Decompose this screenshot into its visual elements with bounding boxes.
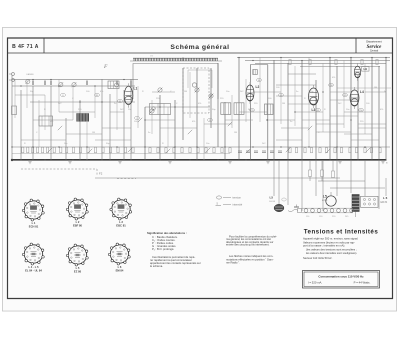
resistor	[66, 147, 68, 153]
svg-text:me Radio ”.: me Radio ”.	[226, 261, 240, 265]
svg-text:Signification des abréviations: Signification des abréviations :	[147, 231, 187, 235]
svg-text:EZ80: EZ80	[322, 200, 328, 202]
svg-text:F2: F2	[99, 172, 103, 176]
bus left junction	[11, 159, 13, 161]
resistor	[181, 148, 183, 153]
capacitor	[278, 151, 282, 153]
AVC horizontal right	[337, 87, 391, 89]
svg-text:L3: L3	[312, 108, 316, 112]
cadre winding hatch	[133, 58, 218, 61]
resistor	[376, 60, 378, 65]
resistor	[289, 60, 291, 65]
resistor	[310, 148, 312, 153]
ground	[228, 160, 232, 164]
coil unit with trimmer	[108, 81, 119, 89]
svg-text:1M: 1M	[374, 87, 377, 89]
svg-text:Département: Département	[366, 39, 382, 43]
resistor	[197, 148, 199, 153]
ground	[118, 160, 122, 164]
svg-text:L 6: L 6	[118, 265, 122, 269]
resistor	[364, 148, 366, 153]
resistor	[321, 170, 324, 177]
resistor	[335, 60, 337, 65]
svg-text:Tensions et Intensités: Tensions et Intensités	[304, 229, 379, 236]
trimmer capacitor	[209, 94, 214, 99]
tuner block	[150, 104, 171, 115]
dash linkage line	[21, 168, 97, 170]
tube L2 EBF80	[246, 82, 259, 104]
cadre loop antenna	[130, 60, 222, 62]
ground	[28, 160, 32, 164]
trimmer capacitor	[58, 82, 63, 87]
trimmer capacitor	[150, 109, 155, 114]
trimmer capacitor	[25, 79, 30, 84]
inter-rail resistors	[33, 81, 131, 86]
svg-text:Schéma général: Schéma général	[170, 44, 229, 51]
svg-text:les valeurs des intensités son: les valeurs des intensités sont souligné…	[306, 251, 357, 255]
svg-text:L 3: L 3	[119, 220, 123, 224]
capacitor	[270, 151, 274, 153]
resistor	[319, 148, 321, 153]
svg-text:P₁ : B.O. prolongé.: P₁ : B.O. prolongé.	[152, 247, 175, 251]
fuse box F	[253, 70, 257, 75]
svg-text:L5: L5	[323, 195, 327, 199]
resistor	[332, 171, 335, 178]
chassis ground bus	[12, 159, 386, 161]
svg-text:B 4F 71 A: B 4F 71 A	[12, 44, 39, 50]
svg-text:ECH 81: ECH 81	[29, 225, 39, 229]
trimmer capacitor	[72, 82, 77, 87]
resistor	[60, 147, 62, 153]
resistor	[37, 147, 39, 153]
ground	[338, 160, 342, 164]
legend tension/intensite	[216, 196, 221, 199]
circled value near L5	[282, 198, 286, 201]
resistor	[53, 147, 55, 153]
svg-text:L 4 - L 5: L 4 - L 5	[28, 265, 39, 269]
svg-text:L2: L2	[256, 85, 260, 89]
resistor	[361, 60, 363, 65]
abbreviations block	[147, 231, 201, 268]
resistor	[205, 148, 207, 153]
title band	[8, 52, 393, 54]
svg-text:L9: L9	[364, 67, 368, 71]
IF transformer left	[39, 116, 53, 126]
tube L9 EM85	[354, 63, 360, 81]
svg-text:F: F	[103, 64, 108, 70]
resistor	[109, 147, 111, 153]
horizontal jumpers	[15, 92, 386, 140]
mains transformer (dark laminated)	[352, 195, 359, 218]
resistor	[334, 148, 336, 153]
tube base L2 EBF80	[66, 198, 88, 220]
verticals below bus	[274, 160, 379, 211]
svg-text:1M: 1M	[92, 132, 95, 134]
tap labels	[306, 216, 349, 218]
trimmer capacitor	[195, 88, 200, 93]
value labels	[24, 77, 387, 145]
tube L3 EBC81	[309, 85, 319, 112]
ground	[381, 160, 385, 164]
resistor	[165, 148, 167, 153]
svg-text:CV: CV	[150, 56, 154, 58]
resistor	[309, 60, 311, 65]
resistor	[149, 148, 151, 153]
IF can 2	[234, 103, 244, 115]
ground	[266, 160, 270, 164]
svg-text:le schéma.: le schéma.	[150, 264, 163, 268]
tube base L5 EZ80	[66, 244, 88, 266]
svg-text:Secteur 110 Volts 50 Hz.: Secteur 110 Volts 50 Hz.	[303, 256, 333, 260]
resistor	[289, 148, 291, 153]
svg-text:EL 84 - UL 84: EL 84 - UL 84	[25, 269, 42, 273]
ground	[68, 160, 72, 164]
rectifier tube L5	[326, 196, 336, 206]
resistor	[309, 170, 312, 177]
capacitor	[262, 151, 266, 153]
resistor	[132, 147, 134, 153]
svg-text:L1: L1	[134, 87, 138, 91]
resistor	[221, 148, 223, 153]
IF can 1	[221, 103, 231, 115]
svg-text:Appareil réglé sur 300 m. envi: Appareil réglé sur 300 m. environ, sans …	[303, 237, 359, 241]
svg-text:L4: L4	[360, 90, 364, 94]
resistor	[102, 147, 104, 153]
resistor	[325, 148, 327, 153]
svg-text:Consommation sous 110 V/50 H: Consommation sous 110 V/50 Hz	[318, 274, 364, 278]
antenna terminals	[12, 73, 15, 76]
resistor	[124, 147, 126, 153]
tube base L1 ECH81	[22, 199, 44, 221]
svg-text:CADRE: CADRE	[26, 73, 34, 76]
capacitor	[238, 151, 242, 153]
resistor	[355, 148, 357, 153]
svg-text:EZ 80: EZ 80	[74, 270, 82, 274]
IF can 3	[265, 104, 274, 115]
input filter box	[12, 106, 17, 115]
resistor	[79, 147, 81, 153]
L9 boxed label	[362, 67, 370, 72]
output transformer (dark)	[274, 204, 284, 211]
speaker stub	[294, 206, 299, 208]
svg-text:1M: 1M	[282, 103, 285, 105]
mains plug	[298, 209, 302, 213]
resistor	[157, 148, 159, 153]
left top rails	[12, 79, 138, 81]
tube L4 EL84	[350, 87, 364, 109]
resistor	[173, 148, 175, 153]
resistor	[229, 148, 231, 153]
capacitor	[254, 151, 258, 153]
resistor	[295, 148, 297, 153]
svg-text:Central: Central	[370, 49, 379, 53]
tube base L3 EBC81	[110, 198, 132, 220]
resistor	[22, 147, 24, 153]
oscillator coil (hatched dark)	[77, 114, 89, 122]
consommation box	[303, 271, 380, 289]
resistor	[189, 148, 191, 153]
ground	[168, 160, 172, 164]
tube L1 ECH81	[124, 83, 137, 107]
switch contact arrows	[48, 118, 370, 153]
tensions paragraph	[303, 237, 359, 261]
lower rails	[12, 146, 390, 148]
svg-text:L 2: L 2	[76, 220, 80, 224]
resistor	[304, 148, 306, 153]
tube base L4-L5 EL84-UL84	[22, 243, 44, 265]
resistor	[46, 147, 48, 153]
svg-text:EL 84: EL 84	[270, 201, 276, 203]
HT rail bundle top right	[237, 57, 390, 59]
resistor	[87, 147, 89, 153]
wire verticals	[15, 57, 365, 160]
tube base L6 EM84	[108, 243, 130, 265]
resistor	[213, 148, 215, 153]
svg-text:port à la masse ; intensités e: port à la masse ; intensités en mA).	[303, 244, 345, 248]
circled voltage values	[61, 78, 364, 121]
lower horizontal line	[95, 177, 340, 179]
extra right-half texture segments	[276, 92, 386, 140]
svg-text:1M: 1M	[184, 91, 187, 93]
resistor	[32, 147, 34, 153]
svg-text:tension: tension	[233, 196, 242, 200]
svg-text:I = 520 mA.: I = 520 mA.	[308, 281, 323, 285]
border frame	[8, 38, 393, 299]
svg-text:1M: 1M	[234, 132, 237, 134]
resistor	[370, 148, 372, 153]
resistor	[117, 147, 119, 153]
middle paragraph block	[226, 235, 277, 265]
tuning gang dashed box	[183, 68, 209, 113]
svg-text:entrée des circuits qu’ils int: entrée des circuits qu’ils intéressent.	[226, 242, 270, 246]
resistor	[379, 148, 381, 153]
resistor	[72, 147, 74, 153]
svg-text:EBC 81: EBC 81	[116, 224, 126, 228]
resistor	[349, 148, 351, 153]
voltage selector box	[361, 196, 379, 207]
svg-text:L 1: L 1	[32, 221, 36, 225]
switch circle chain (voltage taps)	[302, 207, 353, 209]
svg-text:L5: L5	[270, 195, 274, 199]
trimmer capacitor	[158, 88, 163, 93]
resistor	[94, 147, 96, 153]
capacitor	[246, 151, 250, 153]
svg-text:EM 84: EM 84	[381, 202, 388, 204]
loop top connector	[250, 64, 267, 66]
svg-text:L 5: L 5	[76, 266, 80, 270]
svg-text:EM 84: EM 84	[116, 269, 124, 273]
svg-text:EBF 80: EBF 80	[73, 224, 83, 228]
svg-text:intensité: intensité	[233, 203, 243, 207]
svg-text:P = 44 Watts.: P = 44 Watts.	[354, 281, 371, 285]
svg-text:L 6: L 6	[383, 196, 388, 200]
L6 indicator	[385, 178, 387, 196]
AVC line right	[276, 84, 316, 86]
resistor	[42, 147, 44, 153]
resistor	[27, 147, 29, 153]
resistor	[340, 148, 342, 153]
